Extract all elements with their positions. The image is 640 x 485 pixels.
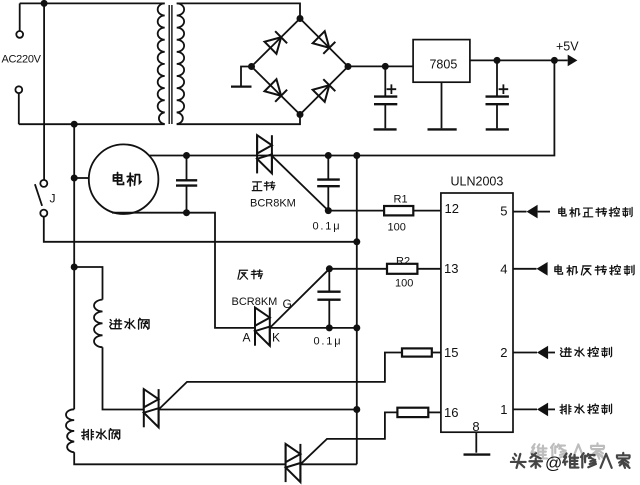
- wire: secondary bottom to bridge: [177, 115, 300, 125]
- wire: inlet valve branch: [74, 267, 102, 300]
- terminal circle 2: [15, 86, 22, 93]
- pin 1 arrow: [537, 403, 548, 417]
- wire: to R1: [328, 210, 384, 212]
- text labels: [2, 54, 42, 66]
- triac Q3 inlet: [144, 389, 159, 427]
- wire: inlet valve to triac Q3: [103, 347, 144, 409]
- transformer secondary winding: [177, 3, 184, 124]
- pin 2 arrow: [537, 346, 548, 360]
- +5V arrow: [568, 55, 578, 67]
- svg-text:4: 4: [500, 262, 507, 277]
- node: C1 junction: [382, 63, 389, 70]
- wire: Q2 right to common: [270, 327, 357, 329]
- svg-text:7805: 7805: [429, 58, 457, 72]
- wire: secondary top to bridge: [177, 3, 300, 18]
- triac Q2 reverse BCR8KM: [255, 308, 270, 346]
- node: top-left junction: [41, 0, 48, 7]
- wire: bridge right to 7805: [348, 65, 413, 67]
- wire: R2 to pin13: [417, 268, 441, 270]
- node: C5 top junction: [326, 265, 333, 272]
- label motor forward control: [559, 207, 632, 217]
- left rail B down: [73, 124, 75, 409]
- label jinshuifa inlet valve: [110, 318, 149, 329]
- resistor R3 box: [402, 348, 432, 356]
- node: common vertical top junction: [353, 152, 360, 159]
- svg-text:2: 2: [500, 345, 507, 360]
- node: common junction y409: [353, 406, 360, 413]
- label dianji motor: [113, 172, 141, 186]
- wire: triac Q1 gate: [272, 156, 328, 211]
- svg-text:@: @: [545, 454, 562, 473]
- label motor reverse control: [555, 265, 634, 275]
- label zhengzhuan forward: [252, 181, 275, 190]
- switch J lever: [35, 184, 42, 206]
- svg-text:J: J: [50, 192, 56, 206]
- svg-text:16: 16: [444, 405, 458, 420]
- diode D3 lower-left: [264, 79, 287, 102]
- wire: triac Q3 gate: [159, 353, 402, 410]
- watermark light layer: [531, 443, 604, 458]
- inductor L2 drain valve coil: [66, 409, 74, 452]
- svg-text:AC220V: AC220V: [2, 54, 42, 66]
- node: +5V branch junction: [551, 57, 558, 64]
- wire: AC top wire: [20, 2, 165, 4]
- common vertical line: [356, 156, 358, 465]
- switch J top contact: [40, 180, 47, 187]
- pin 1 wire: [513, 408, 537, 410]
- pin 5 wire: [513, 211, 527, 213]
- switch J bottom contact: [40, 210, 47, 217]
- node: motor left rail junction: [71, 175, 78, 182]
- node: C2 junction: [494, 57, 501, 64]
- capacitor C5 0.1u: [328, 269, 330, 292]
- ground at bridge left node: [241, 67, 252, 87]
- node: bridge right: [345, 63, 352, 70]
- capacitor C4 motor parallel: [186, 156, 188, 181]
- svg-text:BCR8KM: BCR8KM: [232, 296, 278, 308]
- node: inlet valve branch junction: [71, 264, 78, 271]
- wire: terminal2 lead: [18, 93, 20, 124]
- resistor R2 box: [387, 264, 417, 274]
- transformer core: [168, 5, 170, 124]
- motor M circle: [89, 144, 159, 214]
- 7805 ground pin: [441, 82, 443, 128]
- triac Q1 forward BCR8KM: [257, 135, 272, 173]
- resistor R4 box: [397, 408, 428, 417]
- wire: AC bottom wire: [19, 123, 165, 125]
- svg-text:R1: R1: [394, 193, 408, 205]
- svg-text:100: 100: [395, 277, 413, 289]
- label fanzhuan reverse: [238, 270, 263, 280]
- svg-text:A: A: [243, 331, 251, 345]
- wire: +5V branch down and left: [150, 60, 555, 155]
- node: C3 top junction: [325, 152, 332, 159]
- svg-text:15: 15: [444, 345, 458, 360]
- wire: left rail to switch: [43, 3, 45, 180]
- svg-text:8: 8: [472, 419, 479, 434]
- svg-text:+5V: +5V: [556, 40, 579, 54]
- triac Q4 drain: [286, 444, 301, 482]
- wire: to R2: [329, 268, 387, 270]
- wire: motor bottom: [112, 213, 255, 328]
- bridge edge L-B: [252, 67, 301, 115]
- wire: R1 to pin12: [413, 210, 441, 212]
- terminal circle 1: [16, 31, 23, 38]
- svg-text:5: 5: [500, 203, 507, 218]
- wire: below switch: [44, 217, 357, 242]
- wire: triac Q4 gate: [300, 412, 397, 464]
- svg-text:G: G: [283, 297, 292, 311]
- svg-text:K: K: [272, 331, 280, 345]
- pin 4 wire: [513, 268, 537, 270]
- wire: Q4 right to common: [300, 463, 356, 465]
- svg-text:0.1μ: 0.1μ: [314, 336, 343, 348]
- wire: terminal1 lead: [19, 3, 21, 31]
- wire: motor left: [74, 177, 89, 179]
- label paishuifa drain valve: [82, 429, 120, 440]
- label inlet control: [560, 347, 611, 357]
- node: motor cap bottom junction: [183, 209, 190, 216]
- label drain control: [560, 404, 611, 414]
- diode D1 upper-left: [264, 31, 287, 54]
- inductor L1 inlet valve coil: [94, 300, 102, 348]
- svg-text:R2: R2: [396, 255, 410, 267]
- wire: 7805 output: [470, 59, 568, 61]
- wire: drain valve to triac Q4: [74, 452, 285, 464]
- wire: R3 to pin15: [432, 352, 441, 354]
- node: C5 bottom junction: [326, 324, 333, 331]
- node: common line junction y242: [353, 238, 360, 245]
- resistor R1 box: [384, 206, 413, 215]
- svg-text:1: 1: [500, 402, 507, 417]
- pin 8 ground: [475, 432, 477, 453]
- bridge edge T-L: [252, 19, 301, 67]
- node: common junction y328: [353, 324, 360, 331]
- node: C3 bottom junction: [325, 207, 332, 214]
- IC U1 ULN2003 box: [441, 193, 513, 432]
- svg-text:13: 13: [444, 261, 458, 276]
- pin 2 wire: [513, 352, 537, 354]
- wire: R4 to pin16: [428, 411, 441, 413]
- bridge edge B-R: [300, 67, 348, 115]
- node: bridge top: [297, 15, 304, 22]
- svg-text:12: 12: [445, 201, 459, 216]
- svg-text:100: 100: [388, 222, 406, 234]
- svg-text:BCR8KM: BCR8KM: [250, 197, 296, 209]
- node: bridge bottom: [297, 111, 304, 118]
- pin 5 arrow: [527, 205, 538, 219]
- svg-text:ULN2003: ULN2003: [451, 175, 504, 189]
- node: bridge left: [248, 63, 255, 70]
- capacitor C1 electrolytic: [384, 66, 386, 96]
- node: bottom-left junction: [71, 121, 78, 128]
- diode D2 upper-right: [313, 31, 336, 54]
- capacitor C2 electrolytic: [496, 60, 498, 96]
- regulator U2 7805 box: [413, 40, 470, 83]
- watermark dark layer: [511, 453, 630, 473]
- diode D4 lower-right: [313, 79, 336, 102]
- pin 4 arrow: [537, 262, 548, 276]
- wire: Q3 right to common: [159, 409, 357, 411]
- wire: triac Q2 gate: [270, 269, 330, 328]
- svg-text:0.1μ: 0.1μ: [313, 221, 342, 233]
- capacitor C3 0.1u: [327, 156, 329, 180]
- node: motor top cap junction: [183, 152, 190, 159]
- bridge edge T-R: [300, 19, 348, 67]
- transformer primary winding: [158, 3, 165, 124]
